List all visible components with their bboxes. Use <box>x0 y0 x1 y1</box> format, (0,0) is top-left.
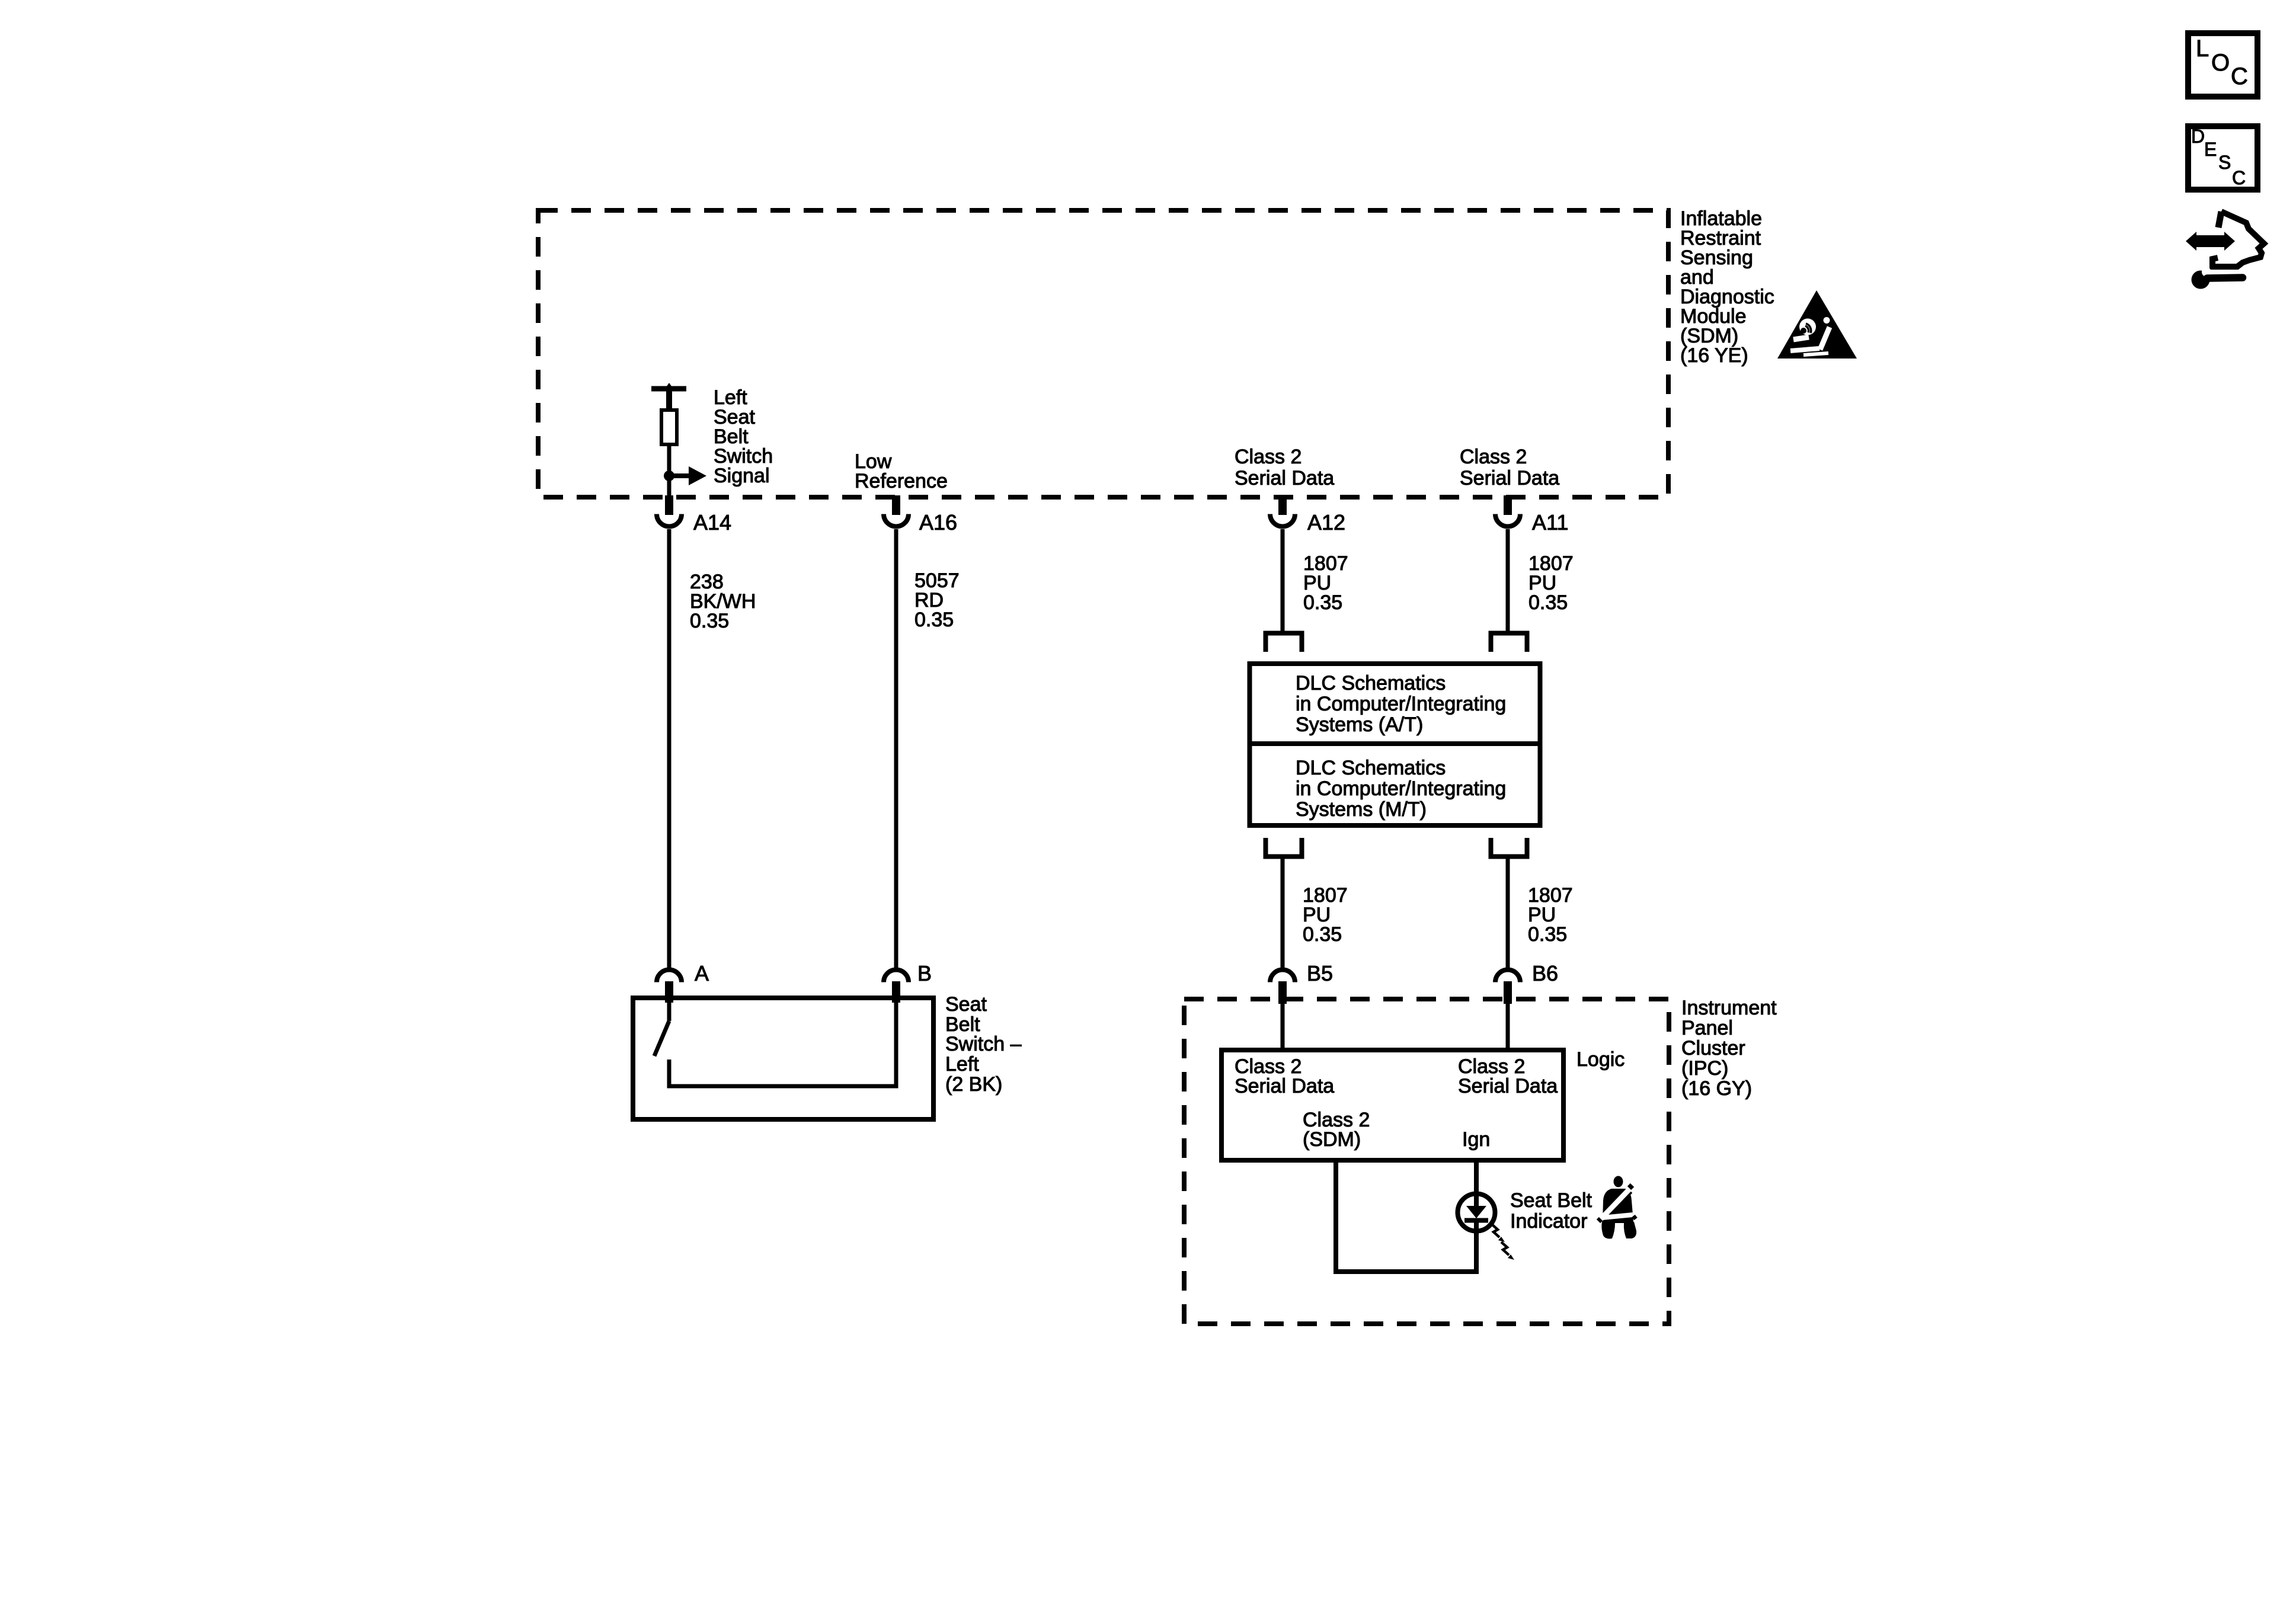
off-page bracket below DLC (left) <box>1266 838 1302 857</box>
fuse/resistor tee bar <box>651 383 686 395</box>
signal arrow <box>669 466 706 485</box>
wire B5 to logic box <box>1281 1003 1285 1050</box>
LOC nav box <box>2188 33 2257 97</box>
svg-text:B: B <box>917 961 932 985</box>
svg-text:Serial Data: Serial Data <box>1460 467 1559 489</box>
Low Reference label <box>855 450 948 492</box>
logic box pin labels <box>1235 1055 1558 1151</box>
svg-text:in Computer/Integrating: in Computer/Integrating <box>1296 693 1506 715</box>
Left Seat Belt Switch Signal label <box>714 386 773 487</box>
wire DLC to B6 <box>1506 859 1510 969</box>
SDM dashed module box <box>538 210 1668 497</box>
svg-text:C: C <box>2232 167 2246 188</box>
connector pin B5 (IPC) <box>1270 970 1295 1004</box>
svg-text:(IPC): (IPC) <box>1681 1057 1728 1080</box>
connector pin B (switch) <box>884 970 909 1003</box>
svg-text:Indicator: Indicator <box>1510 1210 1587 1233</box>
wire logic SDM output down <box>1334 1163 1338 1272</box>
svg-text:0.35: 0.35 <box>1528 591 1568 614</box>
svg-text:A14: A14 <box>693 510 731 534</box>
svg-text:(SDM): (SDM) <box>1303 1128 1361 1151</box>
wire A11 down <box>1506 529 1510 633</box>
svg-text:B5: B5 <box>1307 961 1333 985</box>
wire label 1807 PU 0.35 (left lower) <box>1303 884 1348 946</box>
switch fixed contact wire <box>669 1003 896 1086</box>
svg-text:0.35: 0.35 <box>1528 923 1567 946</box>
off-page bracket above DLC (right) <box>1491 633 1527 652</box>
svg-text:Serial Data: Serial Data <box>1235 1075 1334 1097</box>
DESC nav box <box>2188 126 2257 190</box>
svg-text:Systems (M/T): Systems (M/T) <box>1296 798 1427 821</box>
svg-text:DLC Schematics: DLC Schematics <box>1296 757 1446 779</box>
svg-text:(16 YE): (16 YE) <box>1680 344 1748 367</box>
IPC dashed module box <box>1184 999 1669 1324</box>
DLC Schematics box <box>1250 664 1540 825</box>
switch wire inside from A <box>667 1003 671 1021</box>
svg-text:Panel: Panel <box>1681 1017 1733 1039</box>
wire label 1807 PU 0.35 (right upper) <box>1528 552 1574 614</box>
wire label 238 BK/WH 0.35 <box>690 571 756 632</box>
IPC logic box <box>1221 1050 1563 1160</box>
svg-text:Cluster: Cluster <box>1681 1037 1745 1060</box>
svg-text:Seat Belt: Seat Belt <box>1510 1189 1593 1212</box>
off-page bracket above DLC (left) <box>1266 633 1302 652</box>
svg-text:A11: A11 <box>1532 510 1568 534</box>
svg-text:0.35: 0.35 <box>690 610 729 632</box>
junction dot <box>664 470 674 481</box>
svg-text:A16: A16 <box>919 510 957 534</box>
connector pin A11 <box>1495 495 1520 527</box>
wire label 1807 PU 0.35 (right lower) <box>1528 884 1573 946</box>
svg-text:Ign: Ign <box>1462 1128 1490 1151</box>
svg-text:Logic: Logic <box>1576 1048 1625 1071</box>
svg-text:Left: Left <box>945 1053 979 1076</box>
svg-text:Serial Data: Serial Data <box>1235 467 1334 489</box>
svg-text:Reference: Reference <box>855 470 948 492</box>
resistor R (seat belt switch pull-up) <box>661 410 677 444</box>
svg-text:Class 2: Class 2 <box>1460 446 1527 468</box>
wire label 5057 RD 0.35 <box>914 569 960 631</box>
svg-text:Class 2: Class 2 <box>1235 446 1302 468</box>
switch blade <box>654 1021 669 1056</box>
svg-text:C: C <box>2231 63 2248 89</box>
Class 2 Serial Data label (A12) <box>1235 446 1334 489</box>
svg-text:E: E <box>2204 139 2217 160</box>
svg-text:0.35: 0.35 <box>1303 591 1342 614</box>
connector pin A14 <box>657 495 682 527</box>
SDM module label <box>1680 207 1774 367</box>
airbag warning triangle <box>1777 290 1857 359</box>
wire bottom run <box>1334 1269 1479 1274</box>
IPC module label <box>1681 997 1777 1100</box>
svg-text:Instrument: Instrument <box>1681 997 1777 1019</box>
svg-text:Seat: Seat <box>945 993 987 1016</box>
svg-text:DLC Schematics: DLC Schematics <box>1296 672 1446 694</box>
svg-text:Switch –: Switch – <box>945 1033 1022 1055</box>
Seat Belt Switch label <box>945 993 1022 1096</box>
svg-text:S: S <box>2218 152 2231 173</box>
wire resistor to dashed edge <box>667 446 671 498</box>
Seat Belt Indicator label <box>1510 1189 1593 1233</box>
wire DLC to B5 <box>1281 859 1285 969</box>
wire A16 to switch <box>894 529 898 969</box>
wire A14 to switch <box>667 529 671 969</box>
svg-text:(2 BK): (2 BK) <box>945 1073 1002 1096</box>
connector pin A12 <box>1270 495 1295 527</box>
wire B6 to logic box <box>1506 1003 1510 1050</box>
wire Ign through LED <box>1474 1163 1479 1272</box>
svg-text:L: L <box>2196 36 2209 62</box>
svg-text:0.35: 0.35 <box>914 609 954 631</box>
svg-text:A12: A12 <box>1307 510 1345 534</box>
diagnostic jump icon (arrow + outline + wrench) <box>2186 212 2264 289</box>
off-page bracket below DLC (right) <box>1491 838 1527 857</box>
wire A12 down <box>1281 529 1285 633</box>
connector pin A16 <box>884 495 909 527</box>
svg-text:Serial Data: Serial Data <box>1458 1075 1558 1097</box>
svg-text:A: A <box>695 961 709 985</box>
svg-text:O: O <box>2211 50 2230 76</box>
svg-text:D: D <box>2191 126 2205 147</box>
svg-text:B6: B6 <box>1532 961 1558 985</box>
Class 2 Serial Data label (A11) <box>1460 446 1559 489</box>
LED seat belt indicator <box>1458 1193 1495 1231</box>
LED light arrows <box>1492 1224 1514 1260</box>
connector pin A (switch) <box>657 970 682 1003</box>
Seat Belt Switch box <box>633 998 933 1119</box>
svg-text:Signal: Signal <box>714 465 770 487</box>
seat belt telltale icon <box>1598 1176 1636 1239</box>
wire stub to resistor <box>666 389 672 408</box>
wire label 1807 PU 0.35 (left upper) <box>1303 552 1348 614</box>
svg-text:(16 GY): (16 GY) <box>1681 1077 1752 1100</box>
svg-text:Systems (A/T): Systems (A/T) <box>1296 713 1423 736</box>
svg-text:in Computer/Integrating: in Computer/Integrating <box>1296 777 1506 800</box>
connector pin B6 (IPC) <box>1495 970 1520 1004</box>
svg-text:0.35: 0.35 <box>1303 923 1342 946</box>
